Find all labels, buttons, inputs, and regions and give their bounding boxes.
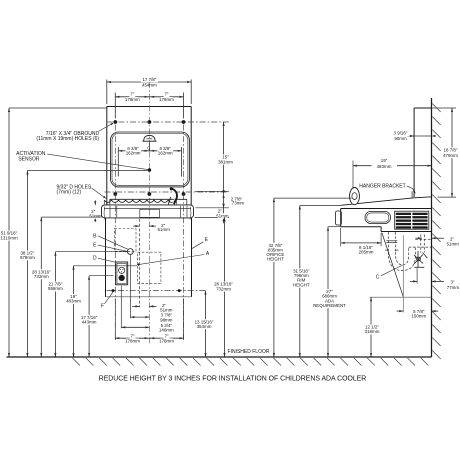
svg-text:7": 7" — [130, 92, 134, 97]
svg-text:205mm: 205mm — [359, 249, 374, 254]
svg-text:17 7/8": 17 7/8" — [142, 77, 156, 82]
svg-text:732mm: 732mm — [216, 286, 231, 291]
svg-text:51mm: 51mm — [158, 227, 171, 232]
svg-text:REQUIREMENT: REQUIREMENT — [313, 303, 346, 308]
svg-text:HEIGHT: HEIGHT — [267, 257, 284, 262]
svg-text:FINISHED FLOOR: FINISHED FLOOR — [228, 349, 270, 355]
svg-text:381mm: 381mm — [218, 159, 233, 164]
svg-text:73mm: 73mm — [232, 201, 245, 206]
svg-text:146mm: 146mm — [159, 328, 174, 333]
svg-text:77mm: 77mm — [447, 285, 460, 290]
svg-text:178mm: 178mm — [159, 338, 174, 343]
svg-text:556mm: 556mm — [48, 286, 63, 291]
svg-text:C: C — [376, 274, 380, 280]
svg-text:F: F — [101, 303, 104, 309]
svg-text:HANGER BRACKET: HANGER BRACKET — [359, 183, 405, 189]
svg-text:178mm: 178mm — [159, 97, 174, 102]
svg-text:732mm: 732mm — [34, 274, 49, 279]
svg-text:REDUCE HEIGHT BY 3 INCHES FOR: REDUCE HEIGHT BY 3 INCHES FOR INSTALLATI… — [99, 375, 367, 382]
svg-text:HEIGHT: HEIGHT — [293, 282, 310, 287]
svg-text:2": 2" — [450, 236, 454, 241]
svg-text:3": 3" — [450, 280, 454, 285]
svg-text:51mm: 51mm — [447, 242, 460, 247]
svg-text:483mm: 483mm — [377, 164, 392, 169]
svg-text:178mm: 178mm — [125, 97, 140, 102]
svg-text:162mm: 162mm — [126, 151, 141, 156]
svg-text:51mm: 51mm — [160, 307, 173, 312]
svg-text:90mm: 90mm — [394, 136, 407, 141]
svg-text:98mm: 98mm — [160, 317, 173, 322]
svg-text:978mm: 978mm — [20, 255, 35, 260]
svg-text:479mm: 479mm — [443, 153, 458, 158]
svg-text:7": 7" — [164, 92, 168, 97]
svg-text:150mm: 150mm — [411, 313, 426, 318]
svg-text:(11mm X 19mm) HOLES (6): (11mm X 19mm) HOLES (6) — [36, 136, 99, 142]
svg-text:19": 19" — [381, 158, 388, 163]
svg-text:318mm: 318mm — [365, 329, 380, 334]
svg-text:162mm: 162mm — [158, 151, 173, 156]
svg-text:(7mm) (12): (7mm) (12) — [57, 190, 82, 196]
svg-text:1310mm: 1310mm — [0, 235, 18, 240]
svg-text:D: D — [93, 256, 97, 262]
svg-text:178mm: 178mm — [125, 338, 140, 343]
svg-text:18 7/8": 18 7/8" — [444, 148, 458, 153]
svg-text:3 9/16": 3 9/16" — [394, 131, 408, 136]
svg-text:354mm: 354mm — [197, 324, 212, 329]
svg-text:51mm: 51mm — [89, 213, 102, 218]
svg-text:SENSOR: SENSOR — [18, 156, 40, 162]
svg-text:483mm: 483mm — [66, 299, 81, 304]
svg-text:443mm: 443mm — [82, 320, 97, 325]
svg-text:51mm: 51mm — [216, 213, 229, 218]
